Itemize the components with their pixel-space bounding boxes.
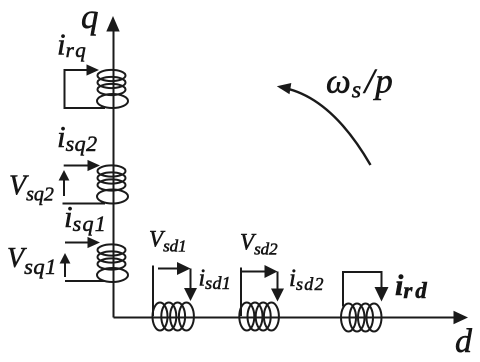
svg-text:Vsd2: Vsd2 <box>240 230 278 259</box>
svg-text:Vsq2: Vsq2 <box>9 171 54 206</box>
d axis <box>114 311 469 324</box>
svg-text:isq1: isq1 <box>64 199 107 236</box>
stator q-axis coil 1 (i_sq1) <box>97 244 128 282</box>
current arrow i_sq1 <box>88 237 101 248</box>
svg-text:Vsq1: Vsq1 <box>7 243 57 279</box>
svg-text:Vsd1: Vsd1 <box>149 227 187 256</box>
rotation arrowhead <box>277 83 292 94</box>
q axis <box>106 16 119 318</box>
stator q-axis coil 2 (i_sq2) <box>97 165 128 203</box>
rotation arc omega_s/p <box>280 87 371 165</box>
svg-text:q: q <box>81 0 99 36</box>
voltage arrow V_sq2 <box>59 170 70 196</box>
wire sq2 bottom terminal <box>63 203 106 205</box>
wire rd short-circuit loop <box>343 272 382 307</box>
current arrow i_sq2 <box>88 160 101 171</box>
svg-text:isd2: isd2 <box>289 265 325 294</box>
current arrow i_sd1 horizontal <box>158 262 191 275</box>
rotor q-axis coil (i_rq) <box>97 70 128 108</box>
voltage arrow V_sq1 <box>60 253 71 277</box>
rotor d-axis coil (i_rd) <box>341 304 382 332</box>
wire sd2 left terminal <box>240 268 242 317</box>
current arrow i_sd2 down lead <box>271 272 284 302</box>
current arrow i_sd1 down lead <box>184 269 197 302</box>
wire rq short-circuit loop <box>65 70 106 108</box>
current arrow i_rq <box>87 64 100 75</box>
wire sq1 bottom terminal <box>65 280 105 282</box>
svg-text:ωs/p: ωs/p <box>326 61 394 103</box>
svg-text:isd1: isd1 <box>199 266 232 294</box>
wire sq2 top terminal <box>64 165 88 167</box>
stator d-axis coil 2 (i_sd2) <box>239 303 279 331</box>
wire sd1 left terminal <box>152 266 154 317</box>
svg-text:ird: ird <box>395 269 430 303</box>
current arrow i_sd2 horizontal <box>241 265 278 278</box>
current arrow i_rd down <box>375 287 389 302</box>
svg-text:isq2: isq2 <box>57 119 98 156</box>
svg-text:d: d <box>455 323 473 360</box>
stator d-axis coil 1 (i_sd1) <box>153 303 194 331</box>
wire sq1 top terminal <box>65 242 88 244</box>
